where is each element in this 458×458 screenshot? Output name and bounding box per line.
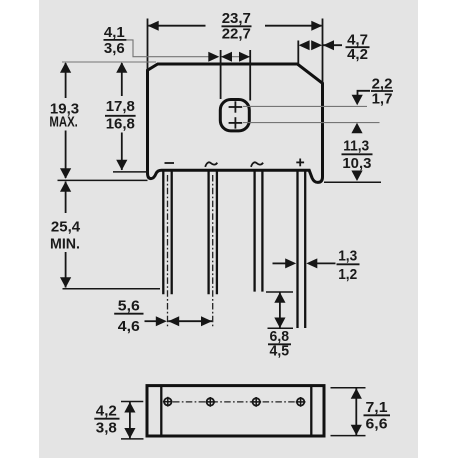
bottom view pin 3 xyxy=(251,397,261,407)
svg-text:16,8: 16,8 xyxy=(106,116,135,133)
svg-text:11,3: 11,3 xyxy=(343,138,369,155)
svg-text:3,6: 3,6 xyxy=(104,40,125,57)
bottom view right end cap line xyxy=(310,387,312,435)
dimension 6,8/4,5 pin length difference xyxy=(266,292,293,360)
svg-text:4,6: 4,6 xyxy=(118,318,140,335)
pin 1 centerline xyxy=(167,175,169,327)
svg-text:4,1: 4,1 xyxy=(104,24,125,41)
svg-text:1,3: 1,3 xyxy=(338,247,357,264)
dimension 5,6/4,6 pin pitch xyxy=(114,298,212,336)
pin 1 (-) xyxy=(163,172,171,295)
svg-text:5,6: 5,6 xyxy=(118,298,140,315)
leader line lower hole center xyxy=(243,122,380,124)
svg-text:3,8: 3,8 xyxy=(96,420,117,437)
pin 3 (~) xyxy=(255,172,263,292)
dimension 23,7/22,7 overall width xyxy=(148,10,323,84)
body outline (front view) xyxy=(148,64,323,182)
svg-text:4,2: 4,2 xyxy=(347,46,368,63)
svg-text:1,7: 1,7 xyxy=(372,90,393,107)
dimension 25,4 MIN pin length xyxy=(50,181,160,289)
svg-text:17,8: 17,8 xyxy=(106,98,135,115)
bottom view pin 4 xyxy=(296,397,306,407)
pin 4 (+) xyxy=(298,172,306,329)
svg-text:4,5: 4,5 xyxy=(270,343,290,360)
pin 2 (~) xyxy=(209,172,217,295)
svg-text:MAX.: MAX. xyxy=(49,114,78,131)
dimension 2,2/1,7 hole center offset xyxy=(352,76,393,108)
pin 2 centerline xyxy=(212,175,214,327)
bottom view pin 2 xyxy=(205,397,215,407)
svg-text:10,3: 10,3 xyxy=(342,155,371,172)
dimension 1,3/1,2 pin width xyxy=(273,247,360,283)
svg-text:25,4: 25,4 xyxy=(51,219,81,236)
dimension 17,8/16,8 inner height xyxy=(105,62,149,172)
mounting slot xyxy=(220,100,249,131)
dimension 4,1/3,6 slot width xyxy=(104,24,251,100)
svg-text:4,2: 4,2 xyxy=(96,403,117,420)
leader line upper hole center xyxy=(243,105,367,107)
dimension 7,1/6,6 body thickness xyxy=(331,388,391,436)
bottom view left end cap line xyxy=(160,387,162,435)
svg-text:23,7: 23,7 xyxy=(222,10,251,27)
bottom view centerline xyxy=(173,401,299,403)
dimension 19,3 MAX body height xyxy=(49,62,156,180)
dimension 4,7/4,2 chamfer xyxy=(298,31,369,64)
terminal label minus xyxy=(165,162,175,164)
svg-text:6,6: 6,6 xyxy=(366,416,388,433)
slot center mark upper xyxy=(229,101,243,112)
slot center mark lower xyxy=(229,117,243,128)
terminal label tilde 2 xyxy=(251,162,263,167)
dimension 11,3/10,3 hole center to bottom xyxy=(324,123,381,183)
terminal label tilde 1 xyxy=(205,162,217,167)
bottom view outline xyxy=(147,386,324,436)
svg-text:1,2: 1,2 xyxy=(338,266,357,283)
svg-text:7,1: 7,1 xyxy=(366,399,388,416)
svg-text:MIN.: MIN. xyxy=(50,235,80,252)
dimension 4,2/3,8 pin row offset xyxy=(94,402,143,439)
svg-text:22,7: 22,7 xyxy=(222,26,251,43)
terminal label plus xyxy=(296,159,304,167)
bottom view pin 1 xyxy=(163,397,173,407)
